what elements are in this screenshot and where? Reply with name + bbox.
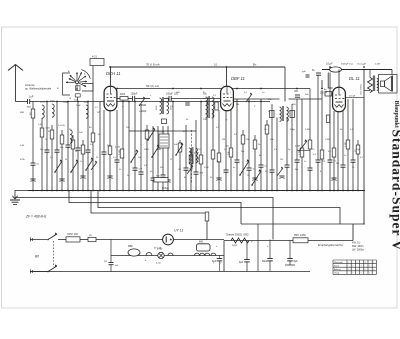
small box 163 [162, 119, 167, 124]
cap 8uF b [246, 241, 248, 272]
svg-text:20k: 20k [336, 163, 339, 165]
svg-text:300: 300 [294, 90, 299, 93]
svg-text:8µF: 8µF [294, 260, 299, 263]
svg-text:0,5M: 0,5M [305, 129, 310, 131]
svg-text:LW 2000m: LW 2000m [352, 249, 364, 252]
capacitor at 272,170 [270, 171, 275, 172]
capacitor mid 187 [185, 104, 190, 105]
svg-text:0,1M: 0,1M [119, 150, 121, 155]
wire heater line 4 [91, 191, 207, 240]
capacitor at 249,168 [247, 169, 252, 170]
svg-text:2n: 2n [127, 175, 129, 177]
wire avc arrow 2 [246, 94, 252, 102]
svg-text:70/52 200: 70/52 200 [67, 234, 79, 236]
svg-text:Blaupunkt: Blaupunkt [393, 101, 399, 128]
scale lamp oval [128, 249, 140, 256]
oscillator coil [189, 148, 191, 163]
resistor at 302,148 [300, 148, 304, 157]
resistor at 322,150 [320, 150, 324, 159]
capacitor at 287,165 [285, 166, 290, 167]
svg-text:0,1M: 0,1M [194, 153, 199, 155]
resistor at 201,155 [199, 155, 203, 164]
wire B+ return [241, 223, 365, 225]
capacitor at 330,160 [328, 161, 333, 162]
svg-text:4-21: 4-21 [92, 56, 97, 59]
rectifier UY 11 [163, 234, 174, 245]
heater chain wire [111, 255, 224, 257]
svg-text:ZF = 468 kHz: ZF = 468 kHz [25, 215, 47, 219]
svg-text:1n: 1n [80, 161, 82, 163]
roll capacitor 0,1uF [330, 67, 342, 72]
rotary wave-band switch S1 [76, 81, 79, 84]
wire chassis bus [28, 190, 365, 192]
pot arrow [299, 141, 307, 151]
coil L 86 [86, 105, 88, 118]
resistor at 255,140 [253, 140, 257, 149]
svg-text:1nF: 1nF [115, 265, 119, 267]
capacitor near bus 168 [165, 179, 170, 181]
svg-text:Antenne: Antenne [25, 83, 35, 87]
capacitor at 104,152 [102, 153, 107, 154]
svg-text:0,1M: 0,1M [198, 157, 200, 162]
capacitor at 163,175 [161, 176, 166, 177]
switch contact 55,172 [54, 171, 56, 173]
capacitor at 33,163 [31, 164, 36, 165]
svg-text:1MΩ: 1MΩ [144, 149, 149, 151]
capacitor at 78,148 [76, 149, 81, 150]
capacitor 4n [325, 92, 332, 97]
trimmer arrow 190,170 [187, 166, 193, 174]
vertical x224 [223, 241, 225, 272]
svg-text:Werkstoff: Werkstoff [334, 261, 343, 264]
svg-text:1n: 1n [304, 161, 306, 163]
wire avc arrow 1 [139, 98, 145, 106]
wire heater line 1 [15, 198, 273, 240]
svg-text:5k: 5k [75, 151, 77, 153]
wire HT riser [363, 70, 365, 225]
wire V1 top riser [110, 67, 112, 87]
wire det [234, 98, 280, 100]
svg-text:300Ω: 300Ω [232, 245, 238, 247]
capacitor at 226,170 [224, 171, 229, 172]
svg-text:8µF: 8µF [212, 260, 217, 263]
IF transformer T1 primary [160, 98, 162, 114]
tube V2 DBF 11 [221, 86, 234, 110]
capacitor at 88,150 [86, 151, 91, 152]
IF transformer T1 secondary [206, 97, 208, 118]
resistor at 93,133 [91, 133, 95, 142]
svg-text:1nF: 1nF [29, 95, 34, 99]
capacitor at 237,160 [235, 161, 240, 162]
svg-text:270 pF: 270 pF [349, 95, 356, 97]
wire vertical drops [32, 102, 34, 191]
svg-text:MBF: MBF [128, 246, 133, 248]
switch contact 71,172 [70, 171, 72, 173]
resistor 328 [326, 115, 329, 123]
wire HT corner drop [284, 67, 286, 102]
tube V3 DL 11 [333, 87, 346, 111]
cap 1nF mains [110, 240, 112, 263]
svg-text:Bund: Bund [334, 266, 340, 268]
wire AVC rail [38, 101, 270, 103]
switch contact 131,162 [130, 161, 132, 163]
ground [15, 191, 28, 200]
wire opt bottom [364, 90, 370, 92]
svg-text:30k: 30k [295, 169, 298, 171]
bump 1 [146, 253, 152, 256]
fuse [66, 237, 80, 242]
wire +HT top rail [109, 66, 285, 68]
svg-text:DCH 11: DCH 11 [106, 71, 121, 76]
resistor at 219,153 [217, 153, 221, 162]
choke B41 [197, 244, 211, 251]
svg-text:100pF: 100pF [131, 93, 138, 96]
capacitor 305 [306, 76, 310, 77]
svg-text:0,5M: 0,5M [204, 167, 209, 169]
coil L 52 [52, 104, 54, 117]
svg-text:2M: 2M [236, 104, 239, 106]
capacitor near bus 282 [279, 175, 284, 177]
cap 8uF a [217, 259, 223, 260]
capacitor at 261,165 [259, 166, 264, 167]
coil L 42 [42, 105, 44, 118]
wire screen rail [117, 88, 310, 90]
dropper resistor zigzag [231, 238, 249, 243]
capacitor at 343,165 [341, 166, 346, 167]
svg-text:0,1M: 0,1M [375, 64, 380, 66]
resistor 110 [108, 146, 112, 155]
svg-text:0,1M: 0,1M [115, 147, 120, 149]
svg-text:B41: B41 [199, 241, 204, 244]
svg-text:Oval µµF: Oval µµF [357, 64, 367, 66]
svg-text:1n: 1n [344, 155, 346, 157]
svg-text:6×5µF: 6×5µF [162, 187, 169, 190]
svg-text:Gang: Gang [334, 273, 340, 275]
svg-text:0,1Ω: 0,1Ω [156, 263, 161, 265]
wire anode riser V3 [338, 70, 340, 88]
capacitor 5nF [316, 74, 321, 75]
wire heater line 2 [69, 191, 241, 225]
svg-text:Anfzug: Anfzug [334, 268, 341, 271]
band switch arrow 252 [251, 184, 253, 186]
svg-text:80µF: 80µF [262, 260, 268, 263]
svg-text:90Ω: 90Ω [157, 149, 161, 151]
wire heater line 3 [98, 191, 340, 225]
capacitor at 68,145 [66, 146, 71, 147]
svg-text:2x0,05: 2x0,05 [158, 132, 165, 134]
svg-text:DBF 11: DBF 11 [231, 76, 245, 81]
table [333, 259, 376, 261]
padder box [154, 178, 168, 183]
svg-text:1n: 1n [45, 139, 47, 141]
capacitor at 186,168 [184, 169, 189, 170]
dial lamp [158, 252, 164, 258]
resistor at 348,140 [346, 140, 350, 149]
wire bottom rail [30, 271, 310, 273]
resistor at 180,143 [178, 143, 182, 152]
capacitor at 353,160 [351, 161, 356, 162]
resistor at 267,125 [265, 125, 269, 134]
svg-text:+ 90pF: + 90pF [139, 110, 147, 113]
speaker [379, 75, 398, 94]
svg-text:2M: 2M [280, 159, 283, 161]
resistor at 191,155 [189, 155, 193, 164]
capacitor near bus 62 [59, 178, 64, 180]
svg-text:Chassis 300/(2) ΩRG: Chassis 300/(2) ΩRG [226, 235, 249, 237]
capacitor at 117,160 [115, 161, 120, 162]
wire opt top link [369, 70, 371, 78]
gang dashed link [191, 130, 193, 183]
svg-text:Oval 300/5Ω: Oval 300/5Ω [361, 83, 363, 95]
IF transformer T2 [280, 107, 282, 121]
capacitor at 318,160 [316, 161, 321, 162]
trimmer box top [90, 59, 104, 66]
svg-text:1n: 1n [217, 161, 219, 163]
capacitor at 153,178 [151, 179, 156, 180]
capacitor near bus 110 [107, 175, 112, 177]
svg-text:0,3M: 0,3M [299, 150, 301, 155]
cap 80uF [269, 240, 271, 272]
svg-text:15pF: 15pF [76, 105, 81, 107]
capacitor near bus 255 [252, 177, 257, 179]
resistor at 42,128 [40, 128, 44, 137]
svg-text:2×0,05: 2×0,05 [58, 124, 66, 127]
resistor at 33,109 [31, 109, 35, 118]
svg-text:µµF: µµF [302, 71, 307, 73]
svg-text:0,1µF: 0,1µF [326, 62, 333, 66]
trimmer arrow 94,166 [91, 162, 97, 170]
vertical 258 [257, 224, 259, 272]
resistor at 231,148 [229, 148, 233, 157]
capacitor at 310,168 [308, 169, 313, 170]
svg-text:Standard-Super V: Standard-Super V [390, 130, 400, 252]
bump 2 [168, 253, 173, 255]
band switch arrow 240 [239, 174, 241, 176]
switch contact 152,157 [151, 156, 153, 158]
resistor at 243,135 [241, 135, 245, 144]
svg-text:PRC 1/250: PRC 1/250 [294, 234, 306, 237]
wire V2 top riser [226, 67, 228, 87]
svg-text:4n: 4n [233, 167, 235, 169]
resistor at 62,135 [60, 135, 64, 144]
svg-text:Empfangsbereiche:: Empfangsbereiche: [318, 243, 344, 247]
svg-text:1nF: 1nF [138, 169, 142, 171]
svg-text:B+: B+ [253, 63, 257, 67]
svg-text:90Ω: 90Ω [27, 107, 31, 109]
svg-text:10k: 10k [138, 157, 141, 159]
resistor grid stopper [120, 97, 128, 101]
svg-text:360p: 360p [290, 129, 296, 131]
capacitor near bus 83 [80, 175, 85, 177]
svg-text:5000pF max: 5000pF max [341, 64, 354, 66]
wire antenna lead [16, 101, 28, 103]
capacitor at 57,150 [55, 151, 60, 152]
trimmer arrow 280,172 [277, 168, 283, 176]
cap 8uF c [289, 241, 291, 266]
svg-text:2M: 2M [222, 139, 225, 141]
junction dots [32, 190, 34, 192]
mains switch [47, 239, 49, 241]
svg-text:250 pF: 250 pF [320, 93, 328, 95]
svg-text:1nF: 1nF [79, 132, 83, 134]
svg-text:8k: 8k [259, 155, 261, 157]
svg-text:1M: 1M [178, 169, 181, 171]
resistor at 310,140 [308, 140, 312, 149]
svg-text:6V 0,1A: 6V 0,1A [154, 247, 162, 250]
svg-text:70 V, 8 mA: 70 V, 8 mA [146, 63, 160, 67]
output transformer [368, 78, 373, 93]
svg-text:2k: 2k [65, 159, 67, 161]
resistor at 52,130 [50, 130, 54, 139]
mains input stubs [30, 239, 47, 241]
switch lower pole [47, 271, 49, 273]
switch contact 176,155 [175, 154, 177, 156]
resistor at 83,145 [81, 145, 85, 154]
capacitor at 47,150 [45, 151, 50, 152]
svg-text:op. Wellenschaltersafe: op. Wellenschaltersafe [25, 87, 52, 91]
resistor at 207,212 [205, 212, 209, 221]
coil box L2 [159, 134, 169, 148]
coil L 70 [70, 130, 72, 143]
tube V1 DCH 11 [104, 86, 117, 110]
svg-text:0,3M: 0,3M [295, 146, 300, 148]
wire osc bus [129, 130, 196, 132]
svg-text:0,2M: 0,2M [345, 142, 347, 147]
svg-text:5Ω: 5Ω [104, 261, 107, 263]
svg-text:DL 11: DL 11 [349, 76, 360, 81]
wire HT to dropper [224, 240, 293, 242]
resistor at 147,130 [145, 130, 149, 139]
svg-text:4nF: 4nF [174, 144, 178, 146]
capacitor near bus 219 [216, 177, 221, 179]
switch contact 86,170 [85, 169, 87, 171]
resistor at 213,150 [211, 150, 215, 159]
capacitor at 141,172 [139, 173, 144, 174]
wire ift2 right [289, 98, 323, 100]
svg-text:40/64: 40/64 [40, 102, 46, 104]
fuse 2 [88, 237, 96, 241]
capacitor at 297,160 [295, 161, 300, 162]
switch contact 148,140 [147, 139, 149, 141]
capacitor at 196,172 [194, 173, 199, 174]
resistor at 334,148 [332, 148, 336, 157]
capacitor near bus 33 [30, 178, 35, 180]
svg-text:4R/5: 4R/5 [120, 93, 126, 96]
junction dots rails [110, 66, 112, 68]
wire output top rail [322, 69, 392, 71]
wire grid V3 [322, 73, 333, 89]
capacitor near bus 334 [331, 177, 336, 179]
fuse PRC [293, 238, 308, 243]
wire af link [297, 150, 310, 152]
svg-text:8µF: 8µF [239, 261, 244, 264]
svg-text:UY 11: UY 11 [174, 229, 183, 233]
antenna [8, 65, 23, 71]
resistor at 122,149 [120, 149, 124, 158]
resistor at 358,145 [356, 145, 360, 154]
resistor at 73,140 [71, 140, 75, 149]
svg-text:96Ω: 96Ω [20, 112, 24, 114]
capacitor at 135,168 [133, 169, 138, 170]
svg-text:NF (2) mA: NF (2) mA [146, 84, 159, 88]
